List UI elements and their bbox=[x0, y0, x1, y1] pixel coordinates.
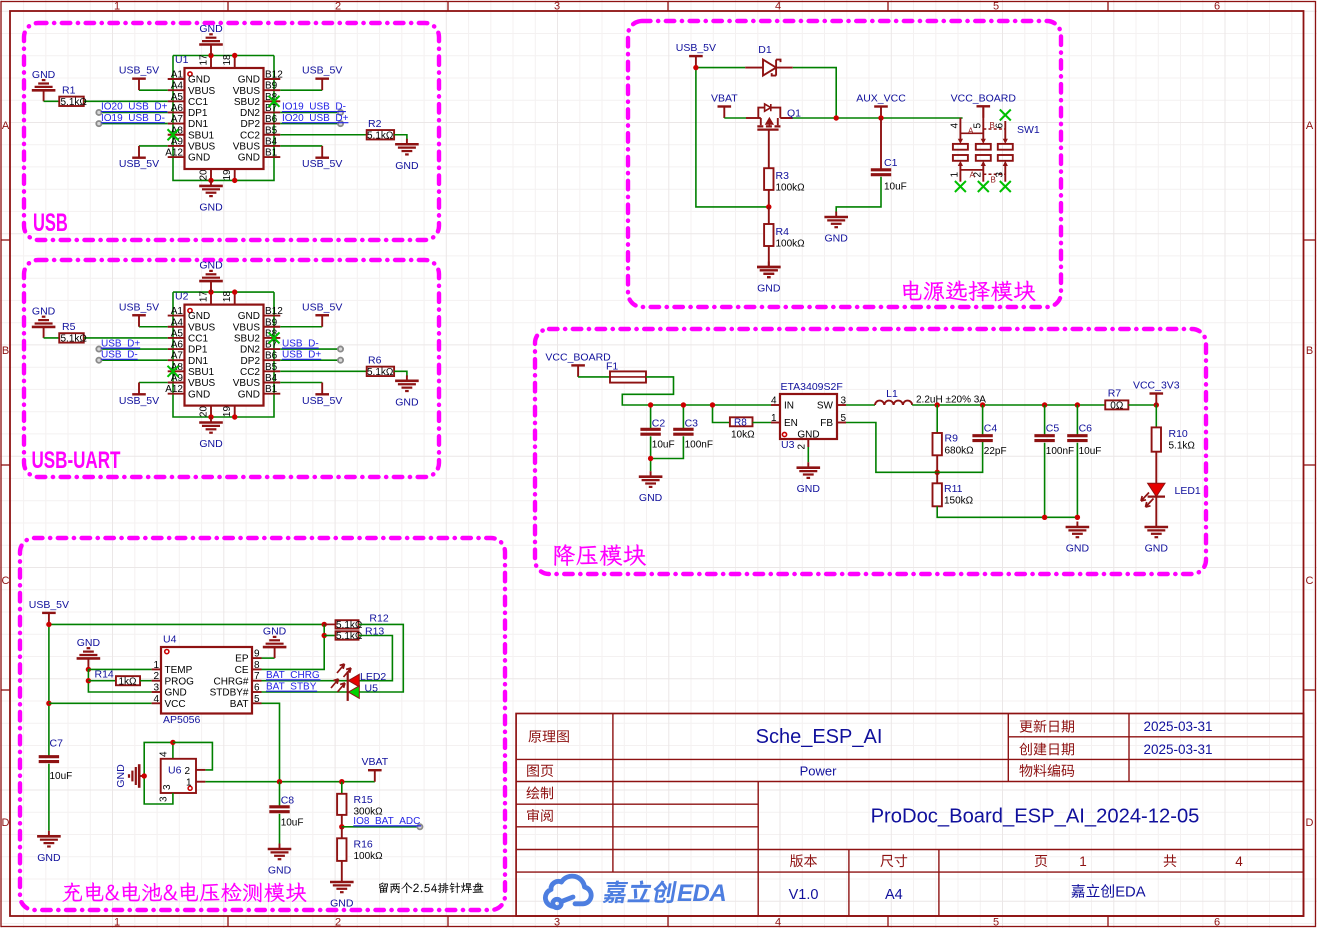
svg-text:B: B bbox=[2, 345, 9, 357]
svg-text:1kΩ: 1kΩ bbox=[119, 676, 138, 687]
svg-text:A7: A7 bbox=[171, 114, 184, 125]
svg-text:GND: GND bbox=[639, 492, 663, 504]
svg-text:A: A bbox=[2, 120, 10, 132]
svg-text:CC1: CC1 bbox=[188, 97, 208, 108]
svg-text:CHRG#: CHRG# bbox=[213, 676, 248, 687]
svg-text:GND: GND bbox=[238, 311, 260, 322]
svg-text:GND: GND bbox=[395, 396, 419, 408]
svg-text:A6: A6 bbox=[171, 340, 184, 351]
svg-text:C: C bbox=[1306, 575, 1314, 587]
svg-text:U5: U5 bbox=[365, 682, 379, 694]
svg-text:3: 3 bbox=[994, 172, 1005, 178]
svg-text:DP2: DP2 bbox=[241, 119, 261, 130]
svg-text:TEMP: TEMP bbox=[165, 665, 193, 676]
svg-text:18: 18 bbox=[222, 291, 233, 303]
svg-text:GND: GND bbox=[115, 764, 127, 788]
svg-text:V1.0: V1.0 bbox=[789, 887, 819, 903]
svg-text:1: 1 bbox=[114, 917, 120, 928]
svg-text:R5: R5 bbox=[62, 321, 76, 333]
svg-text:SW1: SW1 bbox=[1017, 124, 1040, 136]
svg-text:USB_5V: USB_5V bbox=[119, 65, 159, 77]
svg-text:AUX_VCC: AUX_VCC bbox=[856, 93, 906, 105]
svg-text:4: 4 bbox=[159, 751, 170, 757]
svg-text:R14: R14 bbox=[95, 669, 114, 681]
svg-text:B: B bbox=[991, 176, 996, 185]
svg-text:5.1kΩ: 5.1kΩ bbox=[61, 97, 88, 108]
svg-text:CE: CE bbox=[235, 665, 249, 676]
svg-text:SBU1: SBU1 bbox=[188, 130, 215, 141]
svg-text:A: A bbox=[1306, 120, 1314, 132]
svg-text:R16: R16 bbox=[354, 839, 373, 851]
svg-text:U4: U4 bbox=[163, 634, 177, 646]
svg-text:5: 5 bbox=[841, 413, 847, 424]
svg-text:5: 5 bbox=[993, 1, 999, 13]
svg-text:A12: A12 bbox=[165, 384, 183, 395]
svg-text:C6: C6 bbox=[1079, 423, 1093, 435]
svg-text:6: 6 bbox=[1214, 917, 1220, 928]
svg-text:B6: B6 bbox=[265, 114, 278, 125]
svg-text:R2: R2 bbox=[368, 118, 382, 130]
svg-text:U3: U3 bbox=[781, 439, 795, 451]
svg-text:18: 18 bbox=[222, 54, 233, 66]
svg-text:EP: EP bbox=[235, 654, 249, 665]
svg-text:22pF: 22pF bbox=[984, 446, 1007, 457]
svg-text:GND: GND bbox=[37, 852, 61, 864]
svg-text:B4: B4 bbox=[265, 136, 278, 147]
svg-text:VBUS: VBUS bbox=[233, 378, 261, 389]
svg-text:D1: D1 bbox=[758, 44, 772, 56]
svg-text:A4: A4 bbox=[171, 81, 184, 92]
svg-text:5.1kΩ: 5.1kΩ bbox=[367, 130, 394, 141]
svg-text:6: 6 bbox=[254, 683, 260, 694]
svg-text:A4: A4 bbox=[885, 887, 903, 903]
svg-text:USB_5V: USB_5V bbox=[676, 42, 716, 54]
svg-text:GND: GND bbox=[32, 69, 56, 81]
svg-text:2025-03-31: 2025-03-31 bbox=[1143, 742, 1212, 757]
svg-text:4: 4 bbox=[949, 123, 960, 129]
svg-text:10uF: 10uF bbox=[281, 818, 304, 829]
svg-text:USB: USB bbox=[33, 210, 68, 237]
svg-text:100kΩ: 100kΩ bbox=[776, 183, 806, 194]
svg-text:GND: GND bbox=[238, 153, 260, 164]
svg-text:7: 7 bbox=[254, 671, 260, 682]
svg-text:DN1: DN1 bbox=[188, 356, 208, 367]
svg-text:R11: R11 bbox=[944, 483, 963, 495]
svg-text:B1: B1 bbox=[265, 148, 278, 159]
svg-text:B12: B12 bbox=[265, 70, 283, 81]
svg-text:AP5056: AP5056 bbox=[163, 714, 201, 726]
svg-text:5: 5 bbox=[972, 123, 983, 129]
svg-text:10uF: 10uF bbox=[652, 440, 675, 451]
svg-text:VCC: VCC bbox=[165, 699, 186, 710]
svg-text:IN: IN bbox=[784, 401, 794, 412]
svg-text:C3: C3 bbox=[685, 418, 699, 430]
svg-text:17: 17 bbox=[199, 291, 210, 303]
svg-text:B: B bbox=[1306, 345, 1313, 357]
svg-text:USB_5V: USB_5V bbox=[302, 65, 342, 77]
svg-text:3: 3 bbox=[841, 396, 847, 407]
svg-text:GND: GND bbox=[199, 23, 223, 35]
svg-text:SBU2: SBU2 bbox=[234, 334, 261, 345]
svg-text:GND: GND bbox=[757, 283, 781, 295]
svg-text:USB_5V: USB_5V bbox=[302, 301, 342, 313]
svg-text:2: 2 bbox=[796, 444, 807, 450]
svg-text:LED1: LED1 bbox=[1175, 485, 1201, 497]
svg-text:4: 4 bbox=[775, 1, 781, 13]
svg-text:R1: R1 bbox=[62, 84, 76, 96]
svg-text:R9: R9 bbox=[945, 433, 959, 445]
svg-text:2: 2 bbox=[335, 917, 341, 928]
svg-text:2025-03-31: 2025-03-31 bbox=[1143, 719, 1212, 734]
svg-text:USB_5V: USB_5V bbox=[29, 599, 69, 611]
svg-text:100nF: 100nF bbox=[1046, 446, 1074, 457]
svg-text:EDA: EDA bbox=[1115, 885, 1146, 901]
svg-text:C4: C4 bbox=[984, 423, 998, 435]
svg-text:F1: F1 bbox=[606, 361, 618, 373]
svg-text:GND: GND bbox=[330, 898, 354, 910]
svg-text:R15: R15 bbox=[354, 794, 373, 806]
svg-text:680kΩ: 680kΩ bbox=[945, 445, 975, 456]
svg-text:GND: GND bbox=[188, 311, 210, 322]
svg-text:VBUS: VBUS bbox=[188, 322, 216, 333]
svg-text:L1: L1 bbox=[886, 388, 898, 400]
svg-text:2: 2 bbox=[153, 671, 159, 682]
svg-text:GND: GND bbox=[797, 483, 821, 495]
svg-text:5: 5 bbox=[993, 917, 999, 928]
svg-text:EN: EN bbox=[784, 418, 798, 429]
svg-text:GND: GND bbox=[199, 438, 223, 450]
svg-text:3: 3 bbox=[554, 1, 560, 13]
svg-text:1: 1 bbox=[771, 413, 777, 424]
svg-text:GND: GND bbox=[825, 233, 849, 245]
svg-text:1: 1 bbox=[949, 172, 960, 178]
svg-text:C2: C2 bbox=[652, 418, 666, 430]
svg-text:GND: GND bbox=[797, 429, 819, 440]
svg-text:8: 8 bbox=[254, 660, 260, 671]
svg-text:GND: GND bbox=[238, 389, 260, 400]
svg-text:USB_5V: USB_5V bbox=[119, 395, 159, 407]
svg-text:2.2uH ±20% 3A: 2.2uH ±20% 3A bbox=[916, 395, 986, 406]
svg-text:B5: B5 bbox=[265, 362, 278, 373]
svg-text:VCC_3V3: VCC_3V3 bbox=[1133, 380, 1180, 392]
svg-text:PROG: PROG bbox=[165, 676, 195, 687]
svg-text:USB-UART: USB-UART bbox=[32, 447, 121, 474]
svg-text:Power: Power bbox=[800, 763, 838, 778]
svg-text:10uF: 10uF bbox=[1079, 446, 1102, 457]
svg-text:100kΩ: 100kΩ bbox=[354, 851, 384, 862]
svg-text:A12: A12 bbox=[165, 148, 183, 159]
svg-text:C8: C8 bbox=[281, 795, 295, 807]
svg-text:1: 1 bbox=[1079, 854, 1087, 869]
svg-text:USB_5V: USB_5V bbox=[119, 158, 159, 170]
svg-text:GND: GND bbox=[1066, 543, 1090, 555]
svg-text:17: 17 bbox=[199, 54, 210, 66]
svg-text:A5: A5 bbox=[171, 92, 184, 103]
svg-text:VBUS: VBUS bbox=[188, 86, 216, 97]
svg-text:A1: A1 bbox=[171, 70, 184, 81]
svg-text:BAT: BAT bbox=[230, 699, 249, 710]
svg-text:LED2: LED2 bbox=[360, 671, 386, 683]
svg-text:20: 20 bbox=[199, 169, 210, 181]
svg-text:B9: B9 bbox=[265, 317, 278, 328]
svg-text:FB: FB bbox=[820, 418, 833, 429]
svg-text:Sche_ESP_AI: Sche_ESP_AI bbox=[756, 726, 883, 748]
svg-text:VBUS: VBUS bbox=[188, 378, 216, 389]
svg-text:B12: B12 bbox=[265, 306, 283, 317]
svg-text:DP1: DP1 bbox=[188, 108, 208, 119]
svg-text:GND: GND bbox=[199, 260, 223, 272]
svg-text:SBU1: SBU1 bbox=[188, 367, 215, 378]
svg-text:20: 20 bbox=[199, 406, 210, 418]
svg-text:5.1kΩ: 5.1kΩ bbox=[61, 334, 88, 345]
svg-text:ProDoc_Board_ESP_AI_2024-12-05: ProDoc_Board_ESP_AI_2024-12-05 bbox=[871, 806, 1200, 828]
svg-text:5.1kΩ: 5.1kΩ bbox=[336, 631, 363, 642]
svg-text:GND: GND bbox=[165, 688, 187, 699]
svg-text:C7: C7 bbox=[50, 738, 64, 750]
svg-text:VBAT: VBAT bbox=[711, 93, 738, 105]
svg-text:D: D bbox=[1306, 817, 1314, 829]
svg-text:STDBY#: STDBY# bbox=[210, 688, 249, 699]
svg-text:GND: GND bbox=[32, 305, 56, 317]
svg-text:USB_5V: USB_5V bbox=[119, 301, 159, 313]
svg-text:10uF: 10uF bbox=[50, 771, 73, 782]
svg-text:R12: R12 bbox=[369, 613, 388, 625]
svg-text:A: A bbox=[968, 127, 974, 136]
svg-text:GND: GND bbox=[238, 75, 260, 86]
svg-text:DP2: DP2 bbox=[241, 356, 261, 367]
svg-text:U6: U6 bbox=[168, 765, 182, 777]
svg-text:VBUS: VBUS bbox=[233, 322, 261, 333]
svg-text:19: 19 bbox=[222, 169, 233, 181]
svg-text:3: 3 bbox=[153, 683, 159, 694]
svg-text:9: 9 bbox=[254, 649, 260, 660]
svg-text:CC2: CC2 bbox=[240, 130, 260, 141]
svg-text:5.1kΩ: 5.1kΩ bbox=[1169, 441, 1196, 452]
svg-text:VBUS: VBUS bbox=[233, 142, 261, 153]
svg-text:R7: R7 bbox=[1108, 388, 1122, 400]
svg-text:6: 6 bbox=[994, 123, 1005, 129]
svg-text:CC2: CC2 bbox=[240, 367, 260, 378]
svg-text:A4: A4 bbox=[171, 317, 184, 328]
svg-text:GND: GND bbox=[263, 626, 287, 638]
svg-text:R3: R3 bbox=[776, 170, 790, 182]
svg-text:B4: B4 bbox=[265, 373, 278, 384]
svg-text:SW: SW bbox=[817, 401, 834, 412]
svg-text:A6: A6 bbox=[171, 103, 184, 114]
svg-text:6: 6 bbox=[1214, 1, 1220, 13]
svg-text:D: D bbox=[2, 817, 10, 829]
svg-text:ETA3409S2F: ETA3409S2F bbox=[781, 381, 843, 393]
svg-text:GND: GND bbox=[395, 160, 419, 172]
svg-text:R6: R6 bbox=[368, 354, 382, 366]
svg-text:5: 5 bbox=[254, 694, 260, 705]
svg-text:EDA: EDA bbox=[677, 880, 726, 907]
svg-text:USB_5V: USB_5V bbox=[302, 158, 342, 170]
svg-text:B6: B6 bbox=[265, 351, 278, 362]
svg-text:A: A bbox=[970, 171, 976, 180]
svg-text:1: 1 bbox=[114, 1, 120, 13]
svg-text:5.1kΩ: 5.1kΩ bbox=[336, 620, 363, 631]
svg-text:150kΩ: 150kΩ bbox=[944, 496, 974, 507]
svg-text:4: 4 bbox=[153, 694, 159, 705]
svg-text:100kΩ: 100kΩ bbox=[776, 239, 806, 250]
svg-text:VBUS: VBUS bbox=[188, 142, 216, 153]
svg-text:4: 4 bbox=[1235, 854, 1243, 869]
svg-text:19: 19 bbox=[222, 406, 233, 418]
svg-text:USB_5V: USB_5V bbox=[302, 395, 342, 407]
svg-text:VBUS: VBUS bbox=[233, 86, 261, 97]
svg-text:U2: U2 bbox=[175, 291, 189, 303]
svg-text:3: 3 bbox=[162, 784, 173, 790]
svg-text:CC1: CC1 bbox=[188, 334, 208, 345]
svg-text:B: B bbox=[990, 121, 995, 130]
svg-text:DN2: DN2 bbox=[240, 108, 260, 119]
svg-text:GND: GND bbox=[1145, 543, 1169, 555]
svg-text:A7: A7 bbox=[171, 351, 184, 362]
svg-text:10kΩ: 10kΩ bbox=[731, 430, 755, 441]
svg-text:100nF: 100nF bbox=[685, 440, 713, 451]
svg-text:VCC_BOARD: VCC_BOARD bbox=[951, 92, 1017, 104]
svg-text:1: 1 bbox=[153, 660, 159, 671]
svg-text:3: 3 bbox=[554, 917, 560, 928]
svg-text:C1: C1 bbox=[884, 157, 898, 169]
svg-text:3: 3 bbox=[159, 796, 170, 802]
svg-text:B1: B1 bbox=[265, 384, 278, 395]
svg-text:VBAT: VBAT bbox=[361, 756, 388, 768]
svg-text:2: 2 bbox=[184, 766, 190, 777]
svg-text:U1: U1 bbox=[175, 54, 189, 66]
svg-text:5.1kΩ: 5.1kΩ bbox=[367, 367, 394, 378]
svg-text:DP1: DP1 bbox=[188, 345, 208, 356]
svg-text:A5: A5 bbox=[171, 328, 184, 339]
svg-text:GND: GND bbox=[199, 201, 223, 213]
svg-text:0Ω: 0Ω bbox=[1110, 401, 1124, 412]
svg-text:SBU2: SBU2 bbox=[234, 97, 261, 108]
svg-text:GND: GND bbox=[188, 75, 210, 86]
svg-text:VCC_BOARD: VCC_BOARD bbox=[545, 351, 611, 363]
svg-text:C: C bbox=[2, 575, 10, 587]
svg-text:10uF: 10uF bbox=[884, 182, 907, 193]
svg-text:R8: R8 bbox=[734, 418, 747, 429]
svg-text:A1: A1 bbox=[171, 306, 184, 317]
svg-text:C5: C5 bbox=[1046, 423, 1060, 435]
svg-text:2: 2 bbox=[335, 1, 341, 13]
svg-text:GND: GND bbox=[77, 637, 101, 649]
svg-text:B5: B5 bbox=[265, 125, 278, 136]
svg-text:DN1: DN1 bbox=[188, 119, 208, 130]
svg-text:4: 4 bbox=[771, 396, 777, 407]
svg-text:B9: B9 bbox=[265, 81, 278, 92]
svg-text:GND: GND bbox=[188, 389, 210, 400]
svg-text:4: 4 bbox=[775, 917, 781, 928]
svg-text:DN2: DN2 bbox=[240, 345, 260, 356]
svg-text:GND: GND bbox=[268, 865, 292, 877]
svg-text:GND: GND bbox=[188, 153, 210, 164]
svg-text:R10: R10 bbox=[1169, 428, 1188, 440]
svg-text:R4: R4 bbox=[776, 226, 790, 238]
